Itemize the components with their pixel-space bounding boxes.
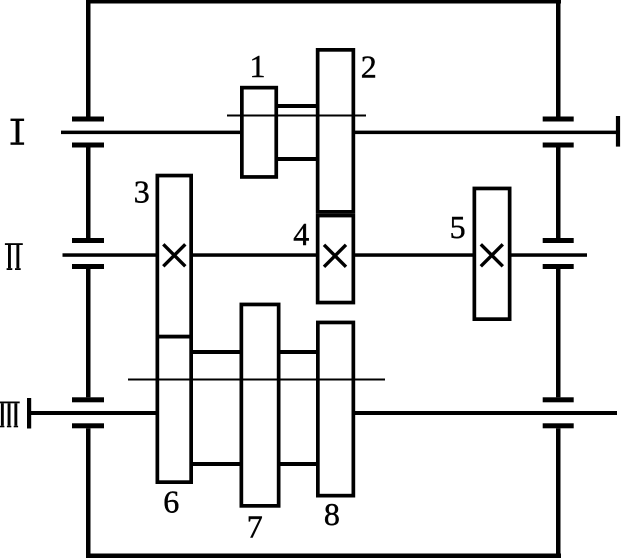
housing left wall segment (shaft I to shaft II bearing) (86, 148, 91, 239)
bearing right shaft II lower cap (543, 264, 574, 269)
hub link gear7-gear8 lower (280, 462, 317, 466)
svg-text:4: 4 (293, 216, 309, 252)
gear 8 on shaft III (318, 322, 354, 495)
hub link gear7-gear8 upper (280, 350, 317, 354)
housing left wall segment (shaft II to shaft III bearing) (86, 269, 91, 397)
shaft II segment 1 (63, 253, 158, 256)
svg-text:3: 3 (134, 173, 150, 209)
gear 5 on shaft II (474, 188, 509, 319)
housing right wall segment (shaft III bearing to bottom) (556, 428, 561, 558)
gear 4 on shaft II (318, 216, 354, 303)
hub link gear6-gear7 upper (192, 350, 240, 354)
bearing right shaft I lower cap (543, 143, 574, 148)
housing right wall segment (top to shaft I bearing) (556, 0, 561, 117)
gear 2 on shaft I (318, 50, 354, 212)
label shaft II roman numeral (5, 243, 23, 270)
gear 3 on shaft II (157, 176, 191, 337)
shaft III left end cap (27, 398, 31, 429)
bearing right shaft II upper cap (543, 238, 574, 243)
hub link gear1-gear2 lower (278, 157, 316, 161)
label shaft I roman numeral (11, 119, 25, 145)
label shaft III roman numeral (0, 402, 20, 428)
bearing left shaft I upper cap (72, 117, 104, 122)
housing right wall segment (shaft I to shaft II bearing) (556, 148, 561, 239)
thin reference line across gears 1-2 (227, 115, 366, 117)
shaft II segment 3 (354, 253, 474, 256)
shaft I left segment (61, 131, 242, 135)
gear 6 on shaft III (157, 337, 191, 483)
free-wheel cross gear 5 (481, 244, 503, 266)
thin reference line across gears 6-7-8 (128, 379, 385, 381)
housing right wall segment (shaft II to shaft III bearing) (556, 269, 561, 397)
svg-text:2: 2 (361, 49, 377, 85)
gear 1 on shaft I (242, 88, 276, 177)
bearing left shaft III lower cap (72, 423, 104, 428)
hub link gear6-gear7 lower (192, 462, 240, 466)
shaft I right segment (353, 131, 618, 135)
housing bottom wall (87, 554, 561, 559)
shaft III left segment (29, 411, 157, 415)
bearing right shaft I upper cap (543, 117, 574, 122)
shaft III right segment (354, 411, 617, 415)
bearing right shaft III upper cap (543, 397, 574, 402)
free-wheel cross gear 3 (163, 244, 185, 266)
svg-text:5: 5 (450, 209, 466, 245)
gear 7 on shaft III (241, 304, 278, 505)
free-wheel cross gear 4 (324, 245, 346, 267)
hub link gear1-gear2 upper (278, 104, 316, 108)
svg-text:7: 7 (247, 508, 263, 544)
svg-text:8: 8 (324, 496, 340, 532)
shaft I right end cap (616, 116, 620, 147)
shaft II segment 4 (510, 253, 587, 256)
bearing left shaft II lower cap (72, 264, 104, 269)
shaft II segment 2 (192, 253, 317, 256)
bearing left shaft II upper cap (72, 238, 104, 243)
svg-text:1: 1 (250, 48, 266, 84)
housing left wall segment (top to shaft I bearing) (86, 0, 91, 117)
bearing left shaft I lower cap (72, 143, 104, 148)
housing left wall segment (shaft III bearing to bottom) (86, 428, 91, 558)
bearing right shaft III lower cap (543, 423, 574, 428)
svg-text:6: 6 (163, 483, 179, 519)
bearing left shaft III upper cap (72, 397, 104, 402)
housing top wall (87, 0, 561, 4)
